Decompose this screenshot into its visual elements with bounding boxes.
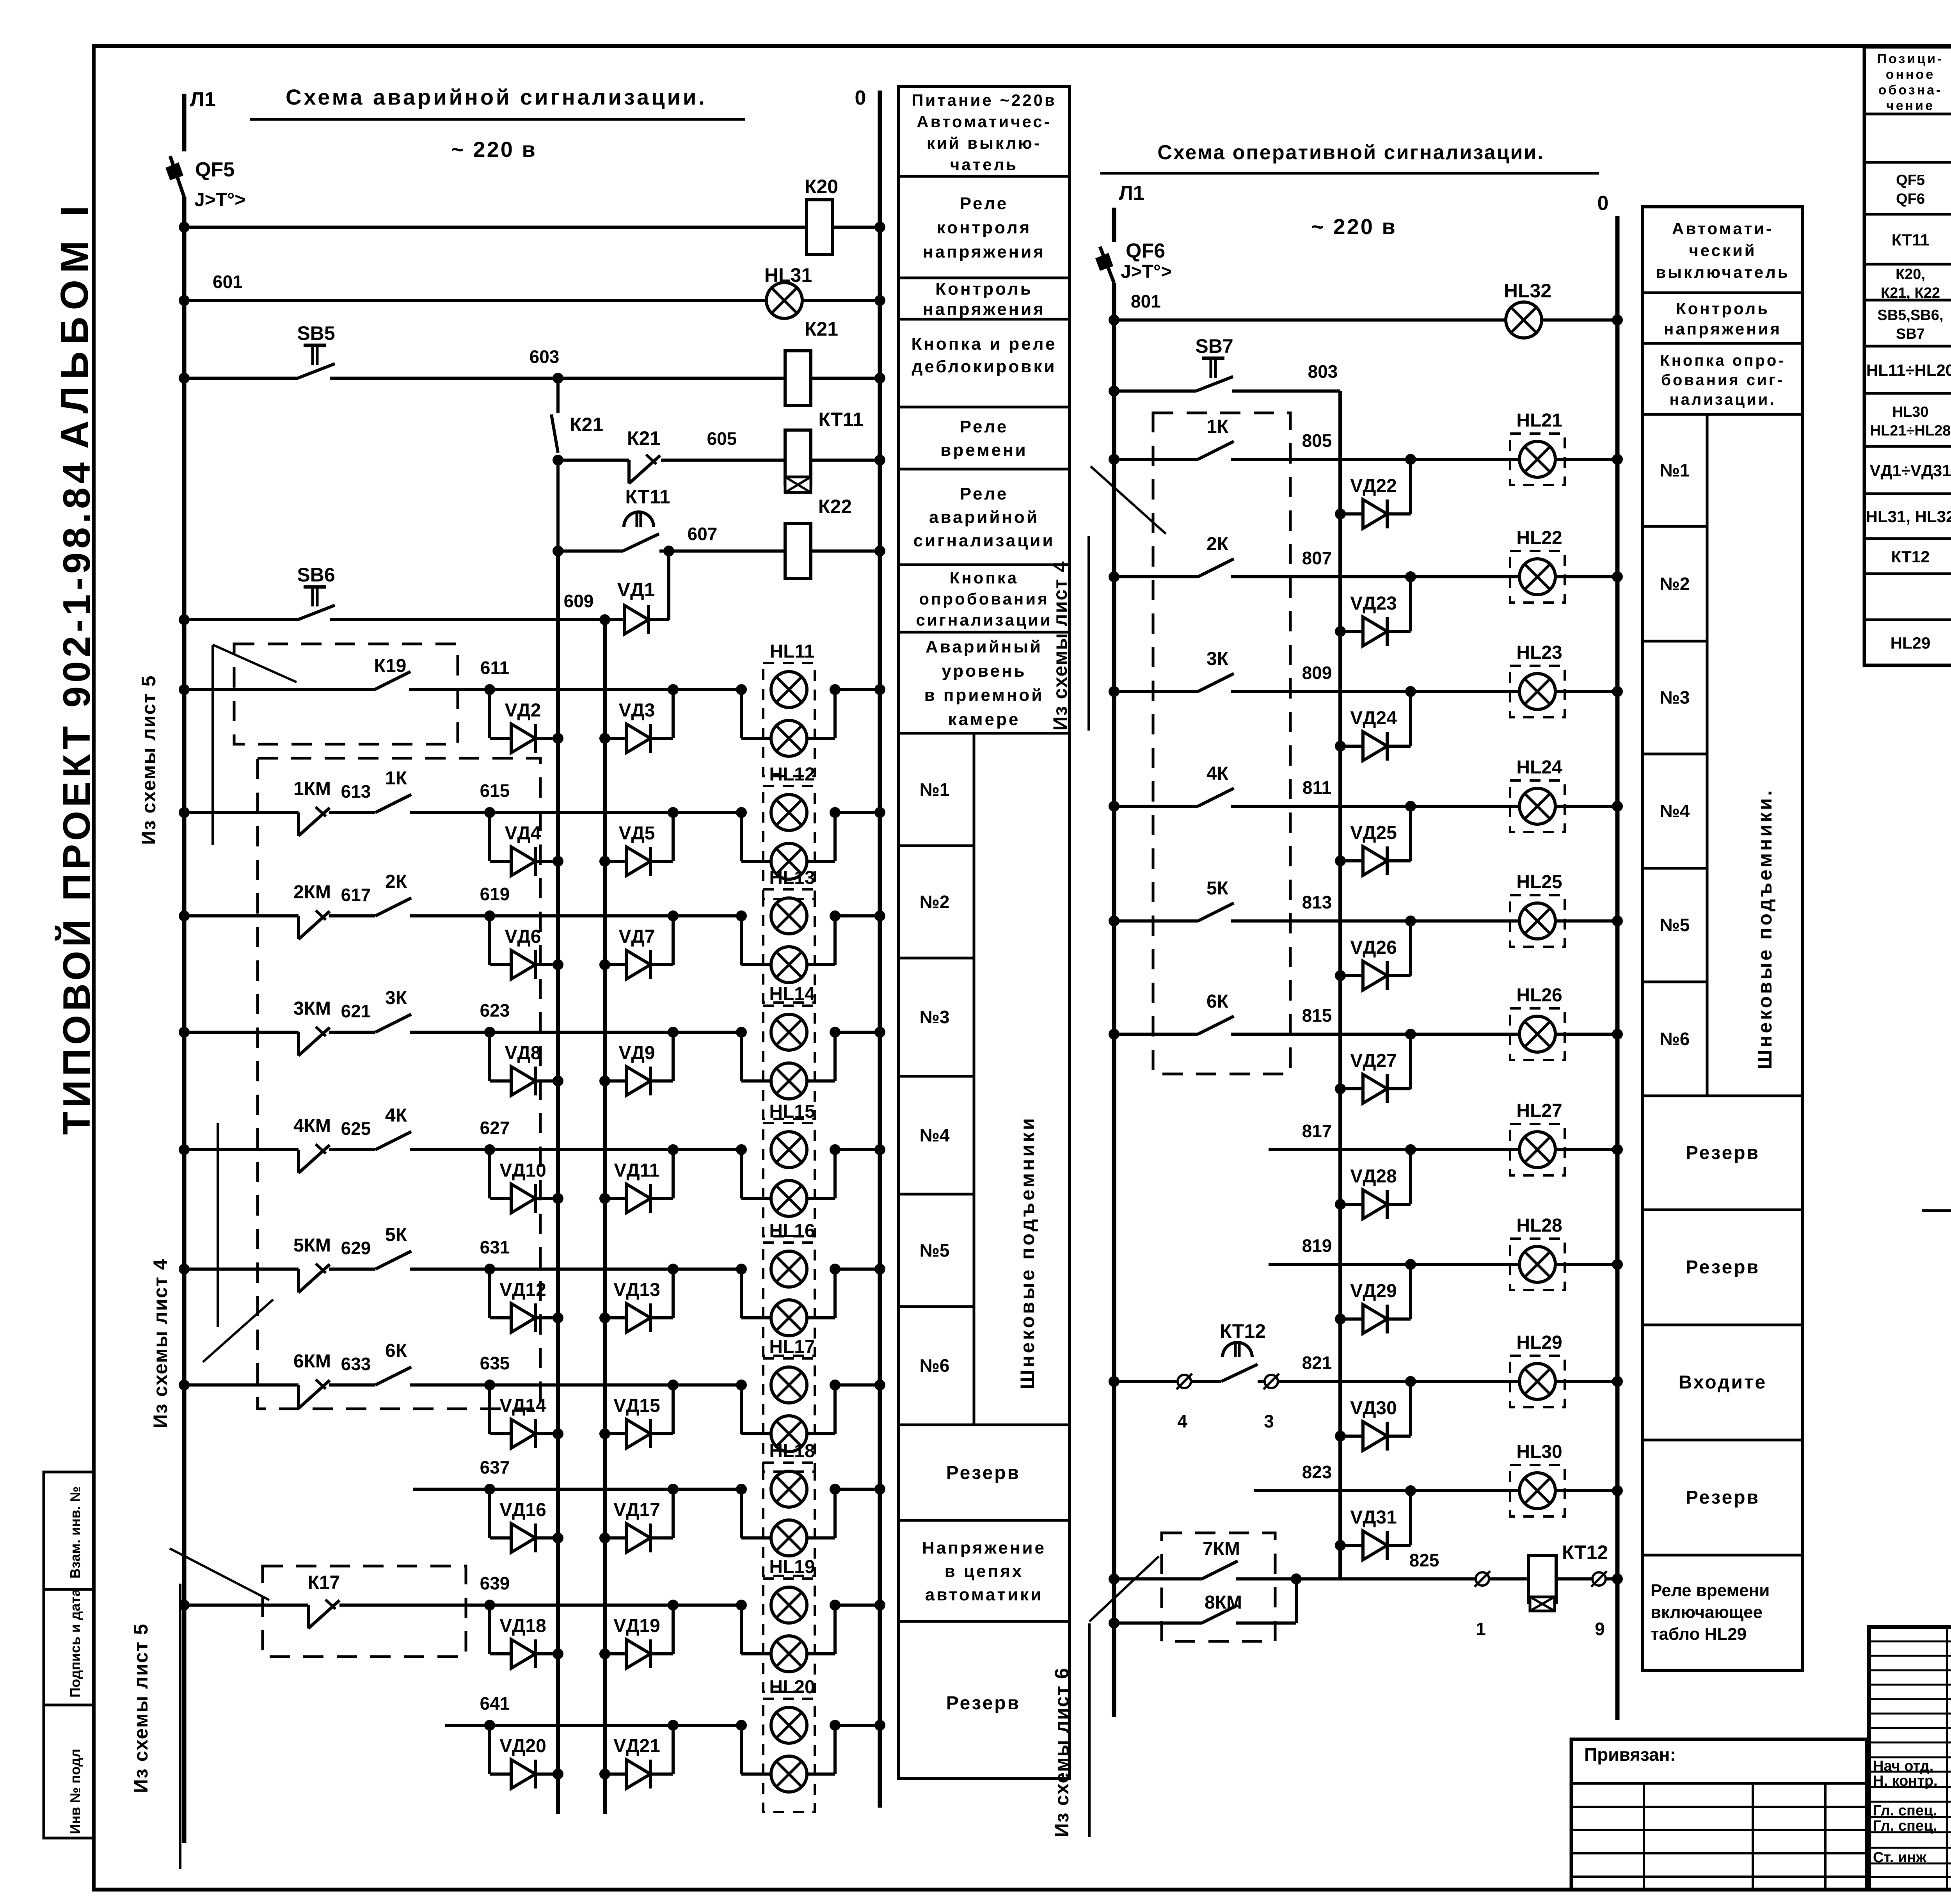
wire rung 801	[1109, 315, 1623, 325]
wire rung 623	[179, 1027, 885, 1038]
svg-text:Взам. инв. №: Взам. инв. №	[67, 1486, 83, 1579]
wire rung 8КМ	[1109, 1579, 1296, 1628]
rail 0 (middle schematic)	[1615, 216, 1620, 1720]
svg-text:4КМ: 4КМ	[293, 1116, 331, 1136]
lamp HL21	[1510, 434, 1565, 485]
svg-text:АЛЬБОМ I: АЛЬБОМ I	[53, 199, 96, 449]
svg-text:627: 627	[480, 1118, 510, 1138]
svg-text:8КМ: 8КМ	[1205, 1592, 1242, 1613]
svg-text:619: 619	[480, 884, 510, 904]
svg-text:кий выклю-: кий выклю-	[927, 134, 1041, 152]
svg-text:№6: №6	[1660, 1029, 1690, 1049]
svg-text:№6: №6	[920, 1355, 950, 1376]
contact 5К	[375, 1251, 411, 1269]
lamp HL30	[1510, 1465, 1565, 1516]
svg-text:№5: №5	[1660, 915, 1690, 935]
svg-text:601: 601	[213, 272, 243, 292]
lamp HL13	[741, 889, 835, 1003]
contact 8КМ	[1202, 1605, 1238, 1623]
note Из схемы лист 6 (middle)	[1051, 1556, 1159, 1837]
diode VД22	[1335, 459, 1411, 528]
svg-text:625: 625	[341, 1118, 371, 1139]
svg-text:включающее: включающее	[1651, 1603, 1763, 1622]
svg-text:VД12: VД12	[499, 1280, 546, 1300]
contact 2К	[375, 898, 411, 916]
wire rung 807	[1109, 571, 1623, 582]
lamp HL12	[741, 786, 835, 899]
svg-text:Резерв: Резерв	[1686, 1143, 1760, 1163]
diode VД24	[1335, 692, 1411, 761]
svg-text:чатель: чатель	[950, 155, 1018, 174]
svg-text:сигнализации: сигнализации	[913, 531, 1055, 550]
lamp HL31	[766, 283, 802, 318]
svg-text:SB5: SB5	[297, 322, 335, 344]
wire rung K20	[179, 222, 885, 233]
svg-text:0: 0	[1597, 192, 1609, 215]
table row HL31 HL32	[1866, 498, 1951, 535]
svg-text:SB7: SB7	[1195, 335, 1233, 357]
svg-text:QF5: QF5	[1896, 172, 1925, 188]
svg-text:Из схемы лист 4: Из схемы лист 4	[1049, 560, 1071, 731]
svg-text:HL14: HL14	[769, 984, 815, 1004]
svg-text:HL31: HL31	[764, 264, 812, 286]
terminal 4	[1176, 1374, 1192, 1389]
svg-text:HL15: HL15	[769, 1101, 815, 1122]
svg-text:ческий: ческий	[1689, 241, 1756, 260]
wire test bus (middle)	[1338, 391, 1342, 1579]
wire bus 2 (test distribute)	[603, 620, 607, 1814]
svg-text:Инв № подл: Инв № подл	[67, 1749, 83, 1834]
svg-text:631: 631	[480, 1237, 510, 1257]
svg-text:Гл. спец.: Гл. спец.	[1873, 1803, 1937, 1819]
table row VD1-VD31	[1870, 460, 1951, 480]
svg-text:2К: 2К	[1206, 534, 1229, 555]
svg-text:VД1÷VД31: VД1÷VД31	[1870, 461, 1951, 480]
svg-text:VД5: VД5	[619, 823, 655, 844]
svg-text:деблокировки: деблокировки	[912, 357, 1056, 376]
svg-text:бования сиг-: бования сиг-	[1661, 372, 1784, 389]
svg-text:ТИПОВОЙ ПРОЕКТ 902-1-98.84: ТИПОВОЙ ПРОЕКТ 902-1-98.84	[55, 459, 98, 1135]
svg-text:VД25: VД25	[1350, 823, 1397, 843]
time contact KT11	[623, 512, 659, 551]
svg-text:Из схемы лист 5: Из схемы лист 5	[138, 675, 160, 845]
svg-text:№1: №1	[1660, 460, 1690, 480]
svg-text:№3: №3	[920, 1007, 950, 1027]
svg-text:Резерв: Резерв	[1686, 1487, 1760, 1508]
svg-text:VД28: VД28	[1350, 1166, 1397, 1187]
svg-text:635: 635	[480, 1353, 510, 1373]
contactor coil K20	[807, 200, 832, 254]
lamp HL19	[741, 1579, 835, 1692]
svg-text:Ст. инж: Ст. инж	[1873, 1849, 1927, 1866]
svg-text:621: 621	[341, 1001, 371, 1021]
box Привязан	[1571, 1739, 1867, 1890]
wire bus 1 (alarm collect)	[556, 551, 560, 1814]
rail Л1 (middle schematic)	[1112, 208, 1116, 1717]
title block main frame	[1869, 1627, 1951, 1890]
table row K20 K21 K22	[1881, 266, 1951, 301]
contact 2КМ	[299, 910, 330, 939]
rail Л1 (left schematic)	[182, 94, 187, 1843]
svg-text:Резерв: Резерв	[946, 1463, 1020, 1483]
diode VД8	[490, 1032, 563, 1095]
svg-text:3К: 3К	[385, 988, 407, 1008]
contact 4КМ	[299, 1144, 330, 1173]
contact 5К	[1198, 903, 1234, 921]
svg-text:№4: №4	[920, 1125, 950, 1145]
lamp HL29	[1510, 1356, 1565, 1407]
cell Реле аварийной сигнализации	[913, 484, 1055, 550]
svg-text:VД22: VД22	[1350, 476, 1397, 496]
svg-text:805: 805	[1302, 430, 1332, 451]
svg-text:613: 613	[341, 781, 371, 802]
contact K19	[375, 672, 410, 690]
lamp HL22	[1510, 551, 1565, 603]
svg-text:КТ11: КТ11	[625, 486, 670, 508]
svg-text:VД3: VД3	[619, 700, 655, 721]
svg-text:5К: 5К	[385, 1225, 407, 1245]
svg-text:К21, К22: К21, К22	[1881, 285, 1940, 301]
svg-text:№1: №1	[920, 779, 950, 800]
svg-text:КТ11: КТ11	[818, 409, 863, 430]
svg-text:Кнопка и реле: Кнопка и реле	[911, 334, 1057, 354]
lamp HL23	[1510, 666, 1565, 717]
cell Контроль напряжения	[923, 279, 1045, 319]
svg-text:VД8: VД8	[505, 1043, 541, 1063]
wire rung 809	[1109, 686, 1623, 697]
contact K21 vertical	[540, 413, 563, 466]
svg-text:Кнопка опро-: Кнопка опро-	[1660, 352, 1785, 369]
svg-text:VД14: VД14	[499, 1396, 546, 1416]
contact 4К	[375, 1132, 411, 1150]
cell Контроль напряжения (middle)	[1664, 299, 1782, 338]
svg-text:Автоматичес-: Автоматичес-	[917, 112, 1052, 131]
svg-text:в цепях: в цепях	[945, 1562, 1024, 1581]
table row HL29	[1891, 625, 1951, 665]
svg-text:КТ11: КТ11	[1892, 231, 1930, 249]
wire rung 803	[1109, 386, 1340, 396]
svg-text:Реле времени: Реле времени	[1651, 1581, 1770, 1600]
lamp HL18	[741, 1463, 835, 1576]
dashed box K17 (from sheet 5)	[263, 1566, 466, 1657]
svg-text:VД13: VД13	[613, 1280, 660, 1300]
svg-text:807: 807	[1302, 548, 1332, 568]
cell Питание 220в Автоматический выключатель	[912, 91, 1057, 174]
svg-text:629: 629	[341, 1238, 371, 1258]
svg-text:HL21: HL21	[1516, 410, 1562, 431]
svg-text:1К: 1К	[1206, 416, 1229, 437]
note Из схемы лист 4 (KM)	[149, 1123, 273, 1428]
svg-text:813: 813	[1302, 892, 1332, 912]
svg-text:Гл. спец.: Гл. спец.	[1873, 1818, 1937, 1834]
svg-text:9: 9	[1595, 1619, 1605, 1639]
svg-text:Аварийный: Аварийный	[926, 637, 1043, 656]
table header Позиционное обозначение	[1877, 52, 1944, 113]
contact 4К	[1198, 788, 1234, 806]
svg-text:819: 819	[1302, 1236, 1332, 1256]
svg-text:VД27: VД27	[1350, 1051, 1397, 1071]
terminal 3	[1263, 1374, 1279, 1389]
svg-text:QF6: QF6	[1896, 191, 1925, 207]
svg-text:VД16: VД16	[499, 1500, 546, 1520]
svg-text:Схема аварийной сигнализац: Схема аварийной сигнализации.	[286, 85, 707, 109]
svg-text:VД29: VД29	[1350, 1281, 1397, 1301]
wire rung 631	[179, 1264, 885, 1275]
middle label column grid	[1643, 207, 1803, 1670]
terminal 9	[1591, 1571, 1607, 1587]
diode VД5	[599, 812, 673, 876]
svg-text:HL29: HL29	[1516, 1332, 1562, 1353]
svg-text:HL26: HL26	[1516, 985, 1562, 1006]
lamp HL28	[1510, 1239, 1565, 1290]
svg-text:онное: онное	[1886, 67, 1935, 82]
svg-text:напряжения: напряжения	[923, 300, 1045, 319]
contact 6КМ	[299, 1380, 330, 1408]
svg-text:автоматики: автоматики	[925, 1585, 1043, 1604]
svg-text:Кнопка: Кнопка	[950, 569, 1018, 587]
diode VД21	[599, 1725, 673, 1788]
svg-text:817: 817	[1302, 1121, 1332, 1141]
note Из схемы лист 4 (middle)	[1049, 466, 1166, 731]
svg-text:809: 809	[1302, 663, 1332, 683]
contact 2К	[1198, 559, 1234, 577]
svg-text:2К: 2К	[385, 871, 407, 892]
svg-text:Шнековые подъемники: Шнековые подъемники	[1016, 1116, 1038, 1389]
contact 3К	[375, 1014, 411, 1032]
svg-text:0: 0	[855, 87, 866, 109]
svg-text:опробования: опробования	[919, 590, 1049, 608]
cell Автоматический выключатель (middle)	[1656, 219, 1789, 281]
diode VД16	[490, 1489, 563, 1552]
svg-text:VД17: VД17	[613, 1500, 660, 1520]
wire rung 641	[445, 1720, 885, 1731]
svg-text:VД1: VД1	[617, 579, 655, 601]
svg-text:напряжения: напряжения	[923, 242, 1045, 261]
svg-text:~ 220 в: ~ 220 в	[1311, 214, 1397, 239]
diode VД11	[599, 1150, 673, 1213]
wire rung 815	[1109, 1029, 1623, 1040]
table row HL30 HL21-HL28	[1870, 404, 1951, 439]
wire rung 821	[1109, 1376, 1623, 1387]
svg-text:VД31: VД31	[1350, 1507, 1397, 1528]
svg-text:6К: 6К	[385, 1340, 407, 1361]
svg-text:Из схемы лист 4: Из схемы лист 4	[149, 1258, 171, 1428]
svg-text:обозна-: обозна-	[1878, 83, 1943, 98]
wire bus from node 603 down	[556, 378, 560, 413]
wire rung 817	[1269, 1144, 1623, 1155]
time relay coil KT12	[1528, 1556, 1556, 1611]
svg-text:№2: №2	[1660, 574, 1690, 594]
svg-text:QF5: QF5	[195, 158, 235, 181]
svg-text:HL21÷HL28: HL21÷HL28	[1870, 423, 1951, 439]
svg-text:Контроль: Контроль	[1676, 299, 1770, 318]
wire rung 813	[1109, 916, 1623, 926]
title block signature grid	[1869, 1627, 1951, 1890]
contact 1КМ	[299, 807, 330, 836]
diode VД28	[1335, 1150, 1411, 1219]
svg-text:7КМ: 7КМ	[1203, 1539, 1240, 1559]
svg-text:611: 611	[480, 658, 509, 678]
cell Аварийный уровень в приемной камере	[924, 637, 1044, 729]
title В схему диспетчерской сигнализации	[1922, 1178, 1951, 1211]
title Схема оперативной сигнализации	[1100, 141, 1599, 239]
svg-text:чение: чение	[1886, 98, 1935, 113]
diode VD1	[605, 605, 669, 634]
svg-text:КТ12: КТ12	[1562, 1541, 1608, 1563]
diode VД31	[1335, 1491, 1411, 1560]
svg-text:Резерв: Резерв	[946, 1693, 1020, 1714]
left label column grid	[899, 87, 1070, 1779]
cell Кнопка и реле деблокировки	[911, 334, 1057, 376]
diode VД27	[1335, 1034, 1411, 1103]
svg-text:КТ12: КТ12	[1220, 1320, 1266, 1342]
contact K17	[308, 1600, 339, 1628]
svg-text:камере: камере	[948, 710, 1020, 729]
diode VД18	[490, 1605, 563, 1668]
svg-text:№4: №4	[1660, 801, 1690, 821]
svg-text:К21: К21	[627, 427, 661, 449]
svg-text:VД30: VД30	[1350, 1398, 1397, 1419]
diode VД4	[490, 812, 563, 876]
svg-text:Питание ~220в: Питание ~220в	[912, 91, 1057, 109]
wire rung 639	[179, 1600, 885, 1611]
svg-text:Шнековые подъемники.: Шнековые подъемники.	[1754, 788, 1776, 1069]
bottom-left stamp boxes	[44, 1472, 94, 1838]
svg-text:4К: 4К	[1206, 763, 1229, 784]
svg-text:HL11: HL11	[770, 641, 815, 662]
contact 1К	[375, 795, 411, 812]
button SB6	[298, 587, 335, 620]
diode VД12	[490, 1269, 563, 1332]
svg-text:SB6: SB6	[297, 564, 335, 586]
svg-text:VД11: VД11	[614, 1160, 660, 1181]
title block signatures names	[1873, 1757, 1951, 1866]
wire rung 607	[553, 460, 885, 556]
svg-text:639: 639	[480, 1573, 510, 1593]
svg-text:HL22: HL22	[1516, 528, 1562, 548]
wire rung 819	[1269, 1259, 1623, 1270]
wire rung 825	[1109, 1573, 1623, 1584]
svg-text:№3: №3	[1660, 687, 1690, 708]
table row HL11-HL20	[1866, 359, 1951, 380]
svg-text:SB5,SB6,: SB5,SB6,	[1878, 307, 1944, 324]
lamp HL17	[741, 1358, 835, 1472]
svg-text:615: 615	[480, 780, 510, 801]
svg-text:Н. контр.: Н. контр.	[1873, 1773, 1938, 1789]
svg-text:825: 825	[1409, 1550, 1439, 1570]
note Из схемы лист 5 (K17)	[130, 1548, 269, 1869]
wire riser VD1 to node 607	[667, 551, 670, 620]
svg-text:HL23: HL23	[1516, 642, 1562, 663]
svg-text:5К: 5К	[1206, 878, 1229, 899]
wire rung 635	[179, 1380, 885, 1390]
svg-text:4К: 4К	[385, 1105, 407, 1126]
svg-text:К21: К21	[805, 318, 838, 340]
svg-text:821: 821	[1302, 1353, 1332, 1373]
svg-text:641: 641	[480, 1693, 510, 1714]
lamp HL15	[741, 1123, 835, 1236]
svg-text:Схема оперативной сигнализ: Схема оперативной сигнализации.	[1157, 141, 1544, 164]
lamp HL32	[1506, 302, 1542, 338]
diode VД30	[1335, 1381, 1411, 1451]
diode VД6	[490, 916, 563, 979]
svg-text:К20,: К20,	[1896, 266, 1925, 283]
svg-text:3К: 3К	[1206, 649, 1229, 669]
diode VД26	[1335, 921, 1411, 990]
wire rung 601	[179, 295, 885, 306]
diode VД17	[599, 1489, 673, 1552]
table row SB5 SB6 SB7	[1878, 307, 1951, 342]
wire rung 619	[179, 910, 885, 921]
svg-text:623: 623	[480, 1000, 510, 1020]
svg-text:HL25: HL25	[1516, 872, 1562, 892]
cell Напряжение в цепях автоматики	[922, 1538, 1046, 1604]
svg-text:Из схемы лист 6: Из схемы лист 6	[1051, 1667, 1073, 1837]
svg-text:Автомати-: Автомати-	[1672, 219, 1773, 238]
svg-text:VД6: VД6	[505, 926, 541, 947]
wire rung 615	[179, 807, 885, 818]
svg-text:К21: К21	[570, 414, 603, 436]
contact 7КМ	[1202, 1561, 1238, 1579]
lamp HL27	[1510, 1124, 1565, 1175]
svg-text:VД24: VД24	[1350, 708, 1397, 729]
wire rung 805	[1109, 454, 1623, 465]
note Из схемы лист 5 (K19)	[138, 645, 297, 845]
component table grid	[1864, 47, 1951, 665]
svg-text:VД15: VД15	[613, 1396, 660, 1416]
svg-text:HL30: HL30	[1892, 404, 1929, 420]
cell Реле времени включающее табло HL29	[1651, 1581, 1770, 1644]
svg-text:HL17: HL17	[769, 1337, 815, 1357]
svg-text:HL29: HL29	[1891, 634, 1931, 652]
svg-text:К22: К22	[818, 496, 852, 517]
dashed box K19 (from sheet 5)	[234, 644, 458, 744]
svg-text:Подпись и дата: Подпись и дата	[67, 1588, 83, 1698]
svg-text:815: 815	[1302, 1005, 1332, 1026]
time relay coil KT11	[785, 430, 811, 492]
svg-text:VД20: VД20	[499, 1736, 546, 1756]
svg-text:HL18: HL18	[769, 1441, 815, 1461]
svg-text:HL30: HL30	[1516, 1442, 1562, 1462]
contact 6К	[375, 1367, 411, 1385]
svg-text:HL11÷HL20: HL11÷HL20	[1866, 361, 1951, 379]
button SB5	[298, 345, 335, 378]
wire rung 605	[558, 455, 885, 466]
wire rung 611	[179, 684, 885, 695]
svg-text:HL31, HL32: HL31, HL32	[1866, 507, 1951, 526]
svg-text:2КМ: 2КМ	[293, 882, 331, 903]
svg-text:801: 801	[1131, 291, 1161, 311]
svg-text:контроля: контроля	[937, 218, 1032, 237]
wire rung 811	[1109, 801, 1623, 812]
cell Реле времени	[940, 417, 1027, 460]
svg-text:аварийной: аварийной	[929, 508, 1039, 527]
svg-text:Л1: Л1	[190, 88, 215, 111]
dashed box 1K-6K contacts (from sheet 4)	[1153, 413, 1290, 1074]
diode VД19	[599, 1605, 673, 1668]
svg-text:5КМ: 5КМ	[293, 1235, 331, 1256]
table row KT12	[1891, 538, 1951, 576]
breaker QF6	[1095, 247, 1114, 283]
svg-text:КТ12: КТ12	[1891, 548, 1930, 566]
svg-text:HL28: HL28	[1516, 1215, 1562, 1236]
button SB7	[1196, 358, 1233, 391]
svg-text:637: 637	[480, 1457, 510, 1477]
svg-text:1КМ: 1КМ	[293, 779, 331, 799]
diode VД3	[599, 690, 673, 753]
diode VД20	[490, 1725, 563, 1788]
cell Кнопка опробования сигнализации (middle)	[1660, 352, 1785, 408]
